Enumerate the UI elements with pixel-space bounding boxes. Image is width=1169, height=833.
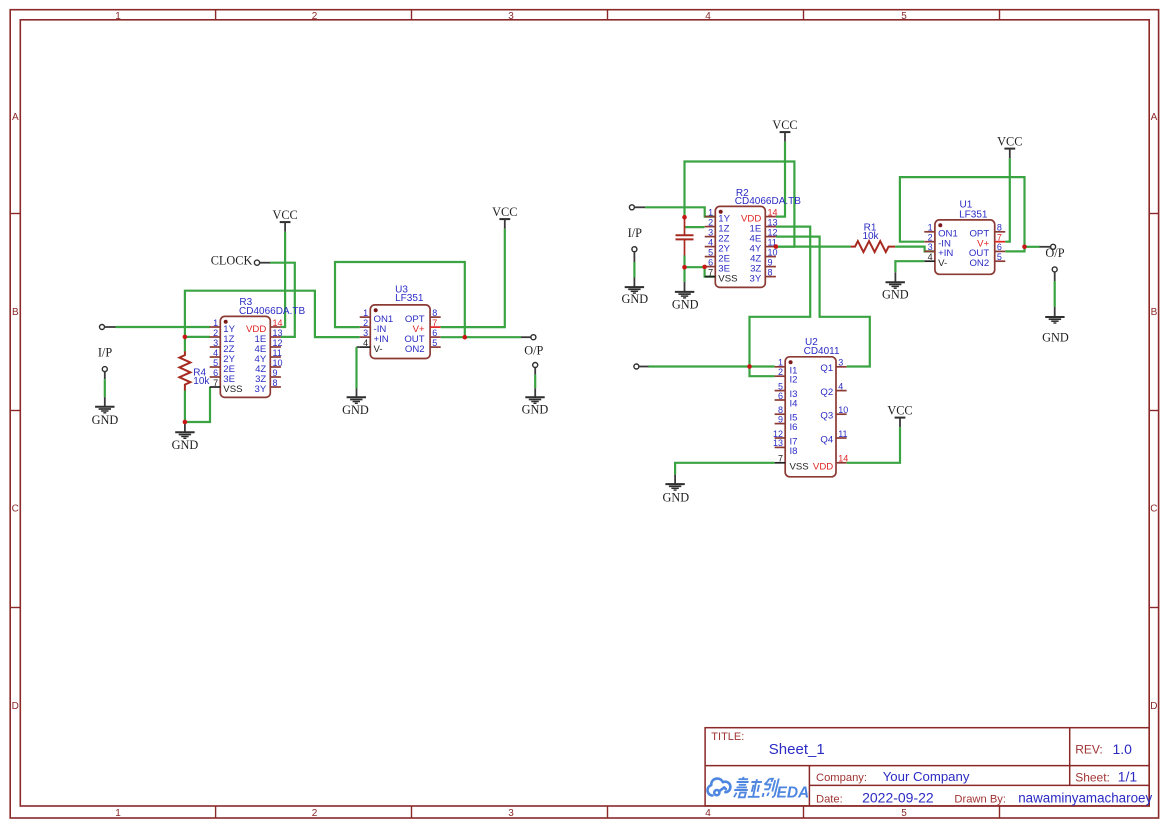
IC R2 pin 4 (2Y) bbox=[705, 237, 731, 254]
svg-text:GND: GND bbox=[1042, 331, 1069, 345]
wire right I/P ground lead bbox=[633, 262, 635, 278]
net port input terminal (U2 left) bbox=[634, 364, 649, 369]
IC R3 pin 5 (2E) bbox=[210, 358, 235, 375]
IC R2 pin 11 (4Y) bbox=[750, 237, 777, 254]
IC U3 pin 1 (ON1) bbox=[360, 308, 394, 325]
capacitor C1 bbox=[676, 217, 694, 255]
svg-text:V-: V- bbox=[938, 258, 947, 269]
ground terminal below O/P (right) bbox=[1052, 267, 1057, 281]
resistor R4 bbox=[179, 351, 190, 390]
svg-text:I2: I2 bbox=[790, 375, 798, 386]
svg-text:LF351: LF351 bbox=[959, 209, 988, 220]
logo text 嘉立创 (stylized strokes) bbox=[733, 777, 779, 798]
wire capacitor junction to R2 pin 6 bbox=[685, 266, 705, 268]
IC R2 pin 8 (3Y) bbox=[750, 267, 776, 284]
svg-text:GND: GND bbox=[621, 292, 648, 306]
IC R2 pin 12 (4E) bbox=[750, 227, 778, 244]
wire VCC to R2 pin 14 bbox=[776, 142, 785, 217]
svg-text:14: 14 bbox=[273, 318, 283, 328]
wire junction to R3 pin 2 bbox=[185, 336, 210, 338]
svg-text:GND: GND bbox=[882, 288, 909, 302]
svg-text:O/P: O/P bbox=[524, 343, 543, 357]
wire R1 to U1 pin 3 bbox=[895, 247, 935, 252]
IC U1 pin 2 (-IN) bbox=[924, 233, 951, 250]
svg-text:5: 5 bbox=[901, 11, 907, 22]
wire VCC to U1 pin 7 V+ bbox=[1005, 158, 1010, 241]
svg-text:1: 1 bbox=[213, 318, 218, 328]
svg-text:I8: I8 bbox=[790, 446, 798, 457]
power symbol VCC (right of U2) bbox=[887, 403, 912, 427]
svg-text:CD4066DA.TB: CD4066DA.TB bbox=[735, 196, 801, 207]
IC U2 pin 13 (I8) bbox=[773, 438, 798, 457]
wire O/P ground lead (left) bbox=[534, 375, 536, 389]
svg-text:6: 6 bbox=[997, 242, 1002, 252]
IC U1 pin 6 (OUT) bbox=[969, 242, 1005, 259]
IC U2 pin 4 (Q2) bbox=[820, 381, 846, 398]
svg-text:D: D bbox=[1150, 701, 1157, 712]
IC U3 pin 2 (-IN) bbox=[360, 318, 387, 335]
IC U3 pin 6 (OUT) bbox=[404, 328, 440, 345]
svg-text:ON2: ON2 bbox=[969, 258, 989, 269]
wire R2 pin6 node down to pin 7 VSS bbox=[705, 267, 716, 277]
svg-text:I/P: I/P bbox=[628, 226, 643, 240]
svg-text:1: 1 bbox=[363, 308, 368, 318]
svg-text:2: 2 bbox=[708, 217, 713, 227]
svg-text:B: B bbox=[12, 307, 19, 318]
svg-text:3: 3 bbox=[928, 242, 933, 252]
IC U2 pin 1 (I1) bbox=[775, 358, 798, 377]
svg-text:A: A bbox=[1151, 112, 1158, 123]
svg-text:3: 3 bbox=[508, 11, 514, 22]
svg-text:8: 8 bbox=[768, 267, 773, 277]
wire R4 bottom to ground junction bbox=[184, 391, 186, 423]
svg-text:VCC: VCC bbox=[772, 118, 797, 132]
wire capacitor bottom to ground junction bbox=[683, 256, 685, 268]
svg-text:I4: I4 bbox=[790, 399, 799, 410]
IC R3 pin 14 (VDD) bbox=[246, 318, 282, 335]
IC U1 pin 4 (V-) bbox=[924, 252, 947, 269]
svg-text:1: 1 bbox=[708, 207, 713, 217]
power symbol VCC (above U1) bbox=[997, 134, 1022, 158]
svg-text:nawaminyamacharoey: nawaminyamacharoey bbox=[1018, 791, 1152, 806]
wire VCC to U2 pin 14 VDD bbox=[847, 427, 900, 463]
svg-text:13: 13 bbox=[273, 328, 283, 338]
svg-text:4: 4 bbox=[708, 237, 713, 247]
svg-text:5: 5 bbox=[708, 247, 713, 257]
border column ticks bottom bbox=[216, 806, 1000, 818]
node junction capacitor bottom bbox=[682, 265, 687, 270]
wire right I/P to R2 pin 1 bbox=[645, 207, 715, 216]
svg-text:3: 3 bbox=[708, 227, 713, 237]
wire CLOCK to R3 pin 13 bbox=[270, 263, 295, 337]
wire U2 node to pin 1 bbox=[750, 365, 775, 367]
svg-text:GND: GND bbox=[172, 438, 199, 452]
wire capacitor top loop to R2 pin 11 bbox=[685, 162, 795, 247]
svg-text:2: 2 bbox=[928, 233, 933, 243]
svg-text:7: 7 bbox=[708, 267, 713, 277]
IC R2 body bbox=[715, 206, 765, 287]
wire U3 feedback pin2 loop bbox=[335, 262, 465, 337]
svg-text:VSS: VSS bbox=[223, 384, 242, 395]
wire U1 pin6 OUT jog to output node bbox=[1005, 247, 1024, 252]
svg-text:REV:: REV: bbox=[1075, 743, 1103, 757]
svg-text:1.0: 1.0 bbox=[1113, 741, 1133, 757]
net port I/P (right input terminal) bbox=[629, 205, 645, 210]
border column numbers bottom bbox=[115, 808, 907, 819]
IC U2 pin 6 (I4) bbox=[775, 391, 799, 410]
wire capacitor ground lead bbox=[683, 267, 685, 282]
IC R2 pin 10 (4Z) bbox=[750, 247, 777, 264]
ground symbol GND (below left I/P) bbox=[95, 397, 114, 413]
svg-text:VSS: VSS bbox=[790, 461, 809, 472]
wire U3 pin6 OUT to O/P terminal bbox=[441, 336, 521, 338]
ground symbol GND (below U3) bbox=[347, 389, 366, 404]
svg-text:ON2: ON2 bbox=[405, 344, 425, 355]
svg-text:Q3: Q3 bbox=[820, 411, 833, 422]
wire capacitor lead to R2 pin 2 bbox=[685, 226, 705, 228]
node junction U3 output bbox=[463, 335, 468, 340]
svg-text:4: 4 bbox=[363, 338, 368, 348]
svg-text:1: 1 bbox=[928, 223, 933, 233]
IC R3 pin 13 (1E) bbox=[255, 328, 283, 345]
node junction U1 output bbox=[1022, 245, 1027, 250]
IC R3 body bbox=[220, 316, 270, 397]
svg-text:11: 11 bbox=[838, 429, 847, 439]
svg-text:1: 1 bbox=[115, 808, 121, 819]
IC U2 pin 3 (Q1) bbox=[820, 358, 846, 375]
node junction R2 pin 11 output node bbox=[774, 244, 779, 249]
IC R2 pin 7 (VSS) bbox=[705, 267, 738, 284]
IC U1 pin 1 (ON1) bbox=[924, 223, 958, 240]
svg-text:6: 6 bbox=[432, 328, 437, 338]
svg-text:Date:: Date: bbox=[816, 794, 843, 806]
wire R2 pin 11 to resistor R1 bbox=[776, 246, 851, 248]
svg-text:Sheet:: Sheet: bbox=[1075, 770, 1110, 784]
svg-text:4: 4 bbox=[838, 381, 843, 391]
svg-text:12: 12 bbox=[273, 338, 283, 348]
ground symbol GND (below right O/P) bbox=[1045, 307, 1064, 323]
svg-text:VCC: VCC bbox=[272, 208, 297, 222]
wire R2 pin 13 to U2 input node bbox=[750, 227, 811, 377]
net port CLOCK terminal bbox=[254, 260, 270, 265]
wire U1 feedback pin2 loop bbox=[900, 177, 1025, 247]
svg-text:I/P: I/P bbox=[98, 346, 113, 360]
IC U3 pin 7 (V+) bbox=[413, 318, 441, 335]
IC U1 body bbox=[935, 220, 995, 274]
power symbol VCC (above R3) bbox=[272, 208, 297, 232]
svg-text:10: 10 bbox=[273, 358, 283, 368]
svg-text:VDD: VDD bbox=[813, 462, 833, 473]
IC R2 pin 3 (2Z) bbox=[705, 227, 730, 244]
IC R2 pin 2 (1Z) bbox=[705, 217, 730, 234]
wire ground junction to R3 pin 7 (VSS) bbox=[185, 387, 210, 422]
svg-text:5: 5 bbox=[997, 252, 1002, 262]
svg-text:7: 7 bbox=[778, 454, 783, 464]
wire U3 pin4 V- to ground bbox=[357, 346, 360, 348]
svg-text:7: 7 bbox=[213, 378, 218, 388]
wire input node vertical to feedback corner bbox=[185, 291, 360, 352]
IC U2 pin 2 (I2) bbox=[775, 367, 798, 386]
svg-text:Your Company: Your Company bbox=[883, 769, 970, 784]
svg-text:4: 4 bbox=[213, 348, 218, 358]
svg-text:GND: GND bbox=[342, 403, 369, 417]
IC R2 pin 13 (1E) bbox=[750, 217, 778, 234]
svg-text:11: 11 bbox=[273, 348, 282, 358]
logo JLC EDA cloud icon bbox=[708, 779, 731, 796]
svg-text:Drawn By:: Drawn By: bbox=[954, 794, 1006, 806]
border row letters left bbox=[12, 112, 19, 712]
svg-text:CD4011: CD4011 bbox=[804, 346, 840, 357]
svg-text:6: 6 bbox=[708, 257, 713, 267]
IC U2 body bbox=[785, 357, 836, 477]
svg-text:3Y: 3Y bbox=[255, 384, 267, 395]
IC R3 pin 6 (3E) bbox=[210, 368, 235, 385]
svg-text:GND: GND bbox=[662, 491, 689, 505]
svg-text:13: 13 bbox=[773, 438, 783, 448]
svg-text:9: 9 bbox=[778, 414, 783, 424]
IC U1 pin 5 (ON2) bbox=[969, 252, 1005, 269]
svg-text:Q4: Q4 bbox=[820, 434, 833, 445]
IC U3 pin 3 (+IN) bbox=[360, 328, 389, 345]
wire VCC to R3 pin 14 bbox=[281, 232, 285, 327]
border column ticks top bbox=[216, 10, 1000, 20]
svg-text:Q1: Q1 bbox=[820, 363, 833, 374]
svg-text:8: 8 bbox=[997, 223, 1002, 233]
svg-text:10k: 10k bbox=[193, 376, 210, 387]
svg-text:Company:: Company: bbox=[816, 772, 867, 784]
svg-text:VSS: VSS bbox=[718, 273, 737, 284]
IC U3 pin 8 (OPT) bbox=[405, 308, 441, 325]
svg-text:5: 5 bbox=[213, 358, 218, 368]
IC U2 pin 11 (Q4) bbox=[820, 429, 847, 446]
svg-text:CLOCK: CLOCK bbox=[211, 254, 253, 268]
wire U2 input terminal to junction bbox=[649, 365, 750, 367]
svg-text:EDA: EDA bbox=[777, 784, 810, 801]
node junction R4 bottom bbox=[183, 420, 188, 425]
wire right O/P ground lead bbox=[1054, 281, 1056, 307]
svg-text:GND: GND bbox=[672, 297, 699, 311]
svg-text:D: D bbox=[12, 701, 19, 712]
node junction R3 pin2 net bbox=[183, 335, 188, 340]
IC R2 pin 6 (3E) bbox=[705, 257, 730, 274]
svg-text:2: 2 bbox=[778, 367, 783, 377]
svg-text:3Y: 3Y bbox=[750, 273, 762, 284]
svg-text:8: 8 bbox=[273, 378, 278, 388]
svg-text:Sheet_1: Sheet_1 bbox=[769, 741, 825, 758]
border row letters right bbox=[1150, 112, 1157, 712]
IC R3 pin 7 (VSS) bbox=[210, 378, 243, 395]
svg-text:9: 9 bbox=[273, 368, 278, 378]
IC U1 pin 7 (V+) bbox=[977, 233, 1005, 250]
svg-text:14: 14 bbox=[768, 207, 778, 217]
svg-text:3: 3 bbox=[213, 338, 218, 348]
svg-text:LF351: LF351 bbox=[395, 293, 424, 304]
ground terminal below I/P (right) bbox=[632, 247, 637, 262]
IC R3 pin 8 (3Y) bbox=[255, 378, 281, 395]
ground symbol GND (below U2) bbox=[665, 475, 684, 491]
IC U1 pin 8 (OPT) bbox=[969, 223, 1005, 240]
svg-text:2022-09-22: 2022-09-22 bbox=[862, 790, 934, 806]
ground symbol GND (below right I/P) bbox=[625, 278, 644, 294]
power symbol VCC (above U3) bbox=[492, 205, 517, 229]
border row ticks right bbox=[1149, 214, 1158, 608]
svg-text:6: 6 bbox=[213, 368, 218, 378]
svg-text:10k: 10k bbox=[862, 231, 879, 242]
node junction R2 pin 6 bbox=[702, 265, 707, 270]
IC R3 pin 9 (3Z) bbox=[255, 368, 281, 385]
svg-text:Q2: Q2 bbox=[820, 387, 833, 398]
svg-text:GND: GND bbox=[522, 403, 549, 417]
resistor R1 bbox=[851, 241, 896, 252]
IC U3 pin 5 (ON2) bbox=[405, 338, 441, 355]
ground symbol GND (below capacitor) bbox=[675, 282, 694, 298]
IC U2 pin 12 (I7) bbox=[773, 429, 798, 448]
IC R3 pin 3 (2Z) bbox=[210, 338, 235, 355]
svg-text:1/1: 1/1 bbox=[1118, 769, 1138, 785]
svg-text:1: 1 bbox=[115, 11, 121, 22]
IC U2 pin 7 (VSS) bbox=[775, 454, 809, 473]
svg-text:4: 4 bbox=[928, 252, 933, 262]
wire I/P ground lead bbox=[104, 379, 106, 397]
wire U1 output node to O/P terminal bbox=[1025, 246, 1040, 248]
ground symbol GND (below left O/P) bbox=[525, 388, 544, 403]
IC R2 pin 14 (VDD) bbox=[741, 207, 777, 224]
net port O/P (right) terminal bbox=[1040, 244, 1056, 249]
wire U1 pin4 V- to ground bbox=[895, 261, 924, 272]
IC R3 pin 1 (1Y) bbox=[210, 318, 236, 335]
IC U2 pin 14 (VDD) bbox=[813, 454, 848, 473]
svg-text:10: 10 bbox=[768, 247, 778, 257]
svg-text:10: 10 bbox=[838, 405, 848, 415]
border column numbers top bbox=[115, 11, 907, 22]
svg-text:VCC: VCC bbox=[887, 403, 912, 417]
wire R2 pin 12 to U2 Q1 bbox=[776, 237, 870, 367]
wire VCC to U3 pin 7 V+ bbox=[441, 229, 505, 327]
svg-text:7: 7 bbox=[997, 233, 1002, 243]
IC R3 pin 11 (4Y) bbox=[255, 348, 282, 365]
IC R2 pin 1 (1Y) bbox=[705, 207, 731, 224]
net port O/P (left) terminal bbox=[521, 335, 536, 340]
IC U3 pin 4 (V-) bbox=[360, 338, 383, 355]
svg-text:9: 9 bbox=[768, 257, 773, 267]
node junction U2 input bbox=[747, 364, 752, 369]
ground symbol GND (below U1) bbox=[886, 272, 905, 288]
svg-text:3: 3 bbox=[363, 328, 368, 338]
svg-text:3: 3 bbox=[508, 808, 514, 819]
svg-text:C: C bbox=[1150, 504, 1157, 515]
svg-text:7: 7 bbox=[432, 318, 437, 328]
svg-text:5: 5 bbox=[901, 808, 907, 819]
border row ticks left bbox=[10, 214, 20, 608]
IC R3 pin 12 (4E) bbox=[255, 338, 283, 355]
node junction capacitor top bbox=[682, 215, 687, 220]
svg-text:O/P: O/P bbox=[1045, 246, 1064, 260]
svg-text:2: 2 bbox=[363, 318, 368, 328]
svg-text:2: 2 bbox=[312, 808, 318, 819]
IC R2 pin 5 (2E) bbox=[705, 247, 730, 264]
IC U2 pin 9 (I6) bbox=[775, 414, 798, 433]
svg-text:VCC: VCC bbox=[997, 134, 1022, 148]
IC U2 pin 5 (I3) bbox=[775, 381, 798, 400]
svg-text:A: A bbox=[12, 112, 19, 123]
wire I/P to R3 pin 1 bbox=[116, 326, 211, 328]
wire U2 pin 7 VSS to ground bbox=[675, 463, 775, 475]
svg-text:TITLE:: TITLE: bbox=[711, 731, 744, 743]
ground terminal below I/P (left) bbox=[102, 367, 107, 380]
IC U1 pin 3 (+IN) bbox=[924, 242, 953, 259]
svg-text:5: 5 bbox=[432, 338, 437, 348]
title block frame bbox=[705, 728, 1149, 806]
svg-text:2: 2 bbox=[213, 328, 218, 338]
svg-text:C: C bbox=[12, 504, 19, 515]
ground terminal below O/P (left) bbox=[533, 363, 538, 375]
svg-text:4: 4 bbox=[705, 11, 711, 22]
svg-text:B: B bbox=[1151, 307, 1158, 318]
IC R3 pin 10 (4Z) bbox=[255, 358, 282, 375]
svg-text:CD4066DA.TB: CD4066DA.TB bbox=[239, 306, 305, 317]
IC U3 body bbox=[370, 305, 430, 359]
IC R3 pin 2 (1Z) bbox=[210, 328, 235, 345]
svg-text:V-: V- bbox=[374, 344, 383, 355]
IC R3 pin 4 (2Y) bbox=[210, 348, 236, 365]
svg-text:2: 2 bbox=[312, 11, 318, 22]
ground symbol GND (below R4) bbox=[175, 422, 194, 438]
svg-text:4: 4 bbox=[705, 808, 711, 819]
svg-text:I6: I6 bbox=[790, 422, 798, 433]
power symbol VCC (above R2) bbox=[772, 118, 797, 142]
svg-text:3: 3 bbox=[838, 358, 843, 368]
IC R2 pin 9 (3Z) bbox=[750, 257, 776, 274]
net port I/P (left input terminal) bbox=[100, 325, 116, 330]
svg-text:GND: GND bbox=[92, 413, 119, 427]
svg-text:8: 8 bbox=[432, 308, 437, 318]
IC U2 pin 10 (Q3) bbox=[820, 405, 848, 422]
svg-text:VCC: VCC bbox=[492, 205, 517, 219]
IC U2 pin 8 (I5) bbox=[775, 405, 798, 424]
svg-text:6: 6 bbox=[778, 391, 783, 401]
